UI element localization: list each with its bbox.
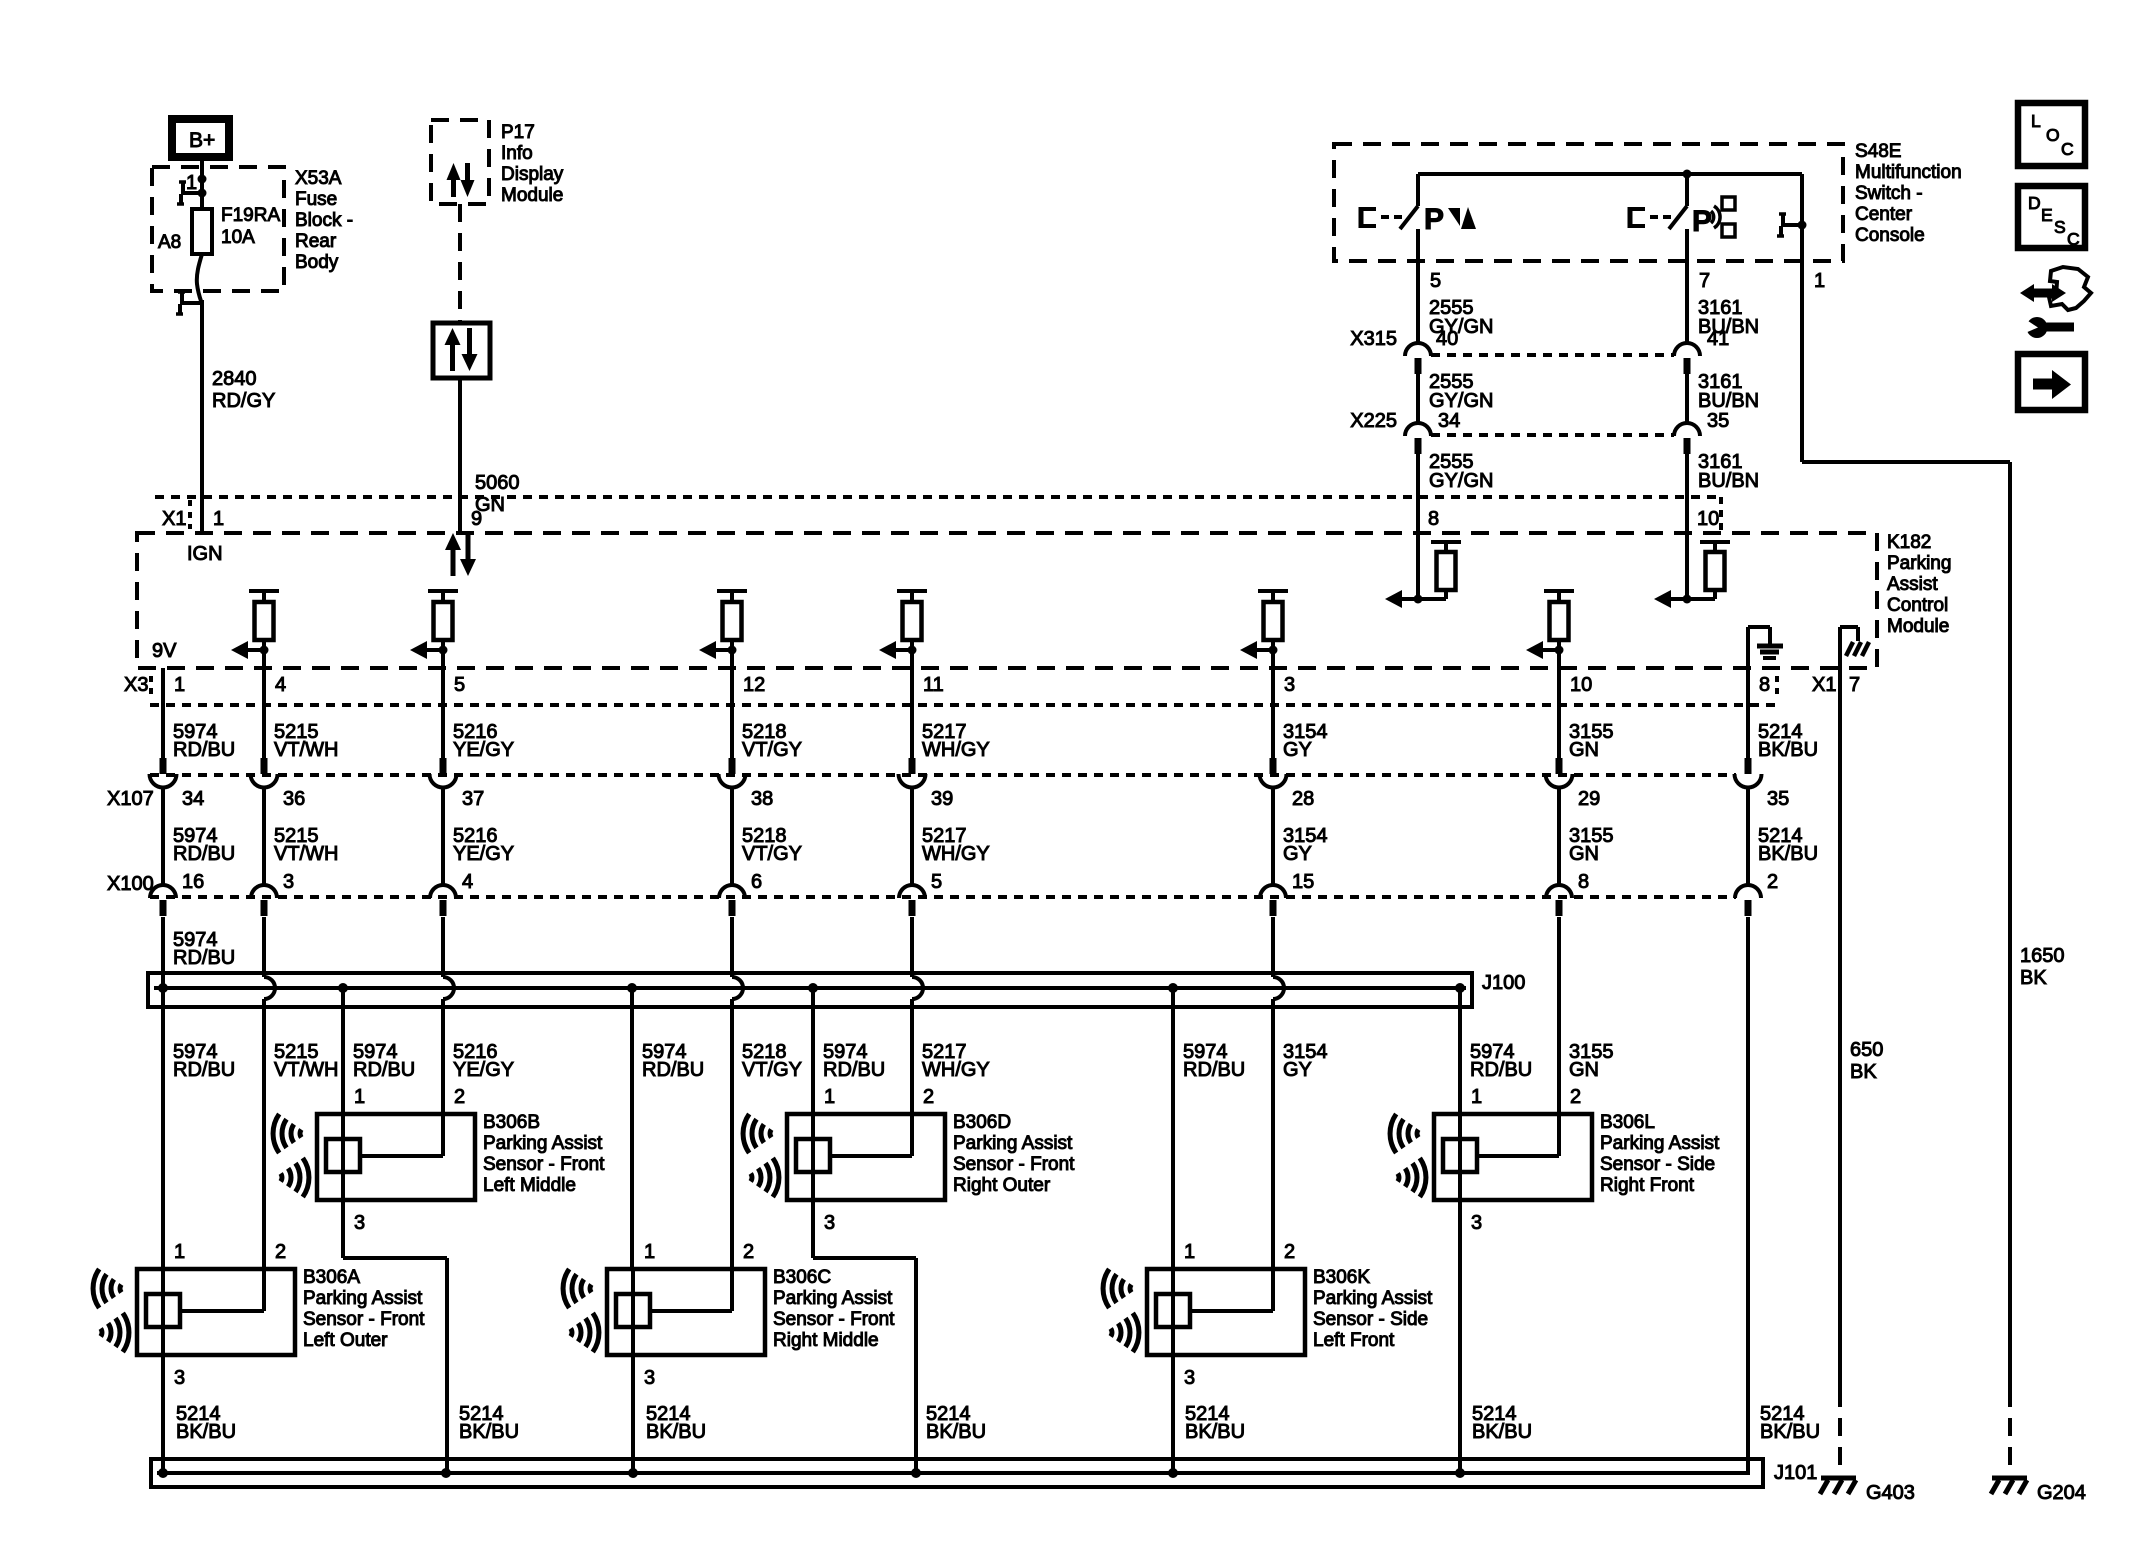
- svg-text:Parking Assist: Parking Assist: [773, 1288, 893, 1309]
- svg-text:Sensor - Front: Sensor - Front: [953, 1154, 1075, 1175]
- wire 5215 VT/WH X3 to X107: [264, 650, 338, 761]
- wire crossing J100 with hop: [912, 917, 923, 999]
- svg-text:3: 3: [174, 1367, 185, 1389]
- connector X107 terminal pin 37: [430, 758, 485, 810]
- connector X100 terminal pin 6: [719, 885, 745, 916]
- connector X3 row: [150, 676, 1777, 705]
- svg-text:GN: GN: [1569, 1059, 1599, 1081]
- svg-text:IGN: IGN: [187, 543, 223, 565]
- connector X100 terminal pin 5: [899, 885, 925, 916]
- connector X100 terminal pin 8: [1546, 885, 1572, 916]
- svg-text:G204: G204: [2037, 1482, 2086, 1504]
- svg-text:39: 39: [931, 788, 953, 810]
- svg-text:RD/GY: RD/GY: [212, 390, 275, 412]
- svg-text:BK/BU: BK/BU: [926, 1421, 986, 1443]
- switch contact 1 (pin 5): [1400, 174, 1418, 261]
- svg-text:Center: Center: [1855, 204, 1913, 225]
- wire crossing J100 with hop: [1273, 917, 1284, 999]
- pin 1 of X53A: [186, 172, 197, 194]
- icon next-page arrow box: [2018, 354, 2085, 410]
- X3 pin 12: [743, 674, 765, 696]
- wire 5216 YE/GY to sensor: [443, 999, 514, 1156]
- wire 5216 YE/GY X107 to X100: [443, 788, 514, 893]
- svg-text:1: 1: [1471, 1086, 1482, 1108]
- sonar waves icon B306D: [743, 1114, 779, 1197]
- wire 3161 BU/BN segment 2: [1687, 371, 1759, 423]
- wire 3155 GN X3 to X107: [1559, 650, 1614, 761]
- wire 5217 WH/GY to sensor: [912, 999, 990, 1156]
- svg-text:650: 650: [1850, 1039, 1883, 1061]
- svg-text:8: 8: [1578, 871, 1589, 893]
- svg-text:BK/BU: BK/BU: [1758, 739, 1818, 761]
- svg-text:Left Outer: Left Outer: [303, 1330, 388, 1351]
- parking assist sensor B306D: [787, 1086, 945, 1200]
- svg-text:J101: J101: [1774, 1462, 1817, 1484]
- svg-text:RD/BU: RD/BU: [173, 1059, 235, 1081]
- wire 5215 VT/WH X107 to X100: [264, 788, 338, 893]
- svg-text:RD/BU: RD/BU: [173, 843, 235, 865]
- wire 1650 BK label: [2020, 945, 2065, 989]
- label B306B: [483, 1112, 605, 1196]
- X3 pin 11: [923, 674, 944, 696]
- svg-text:10: 10: [1570, 674, 1592, 696]
- wire 5974 RD/BU to sensor: [813, 988, 885, 1114]
- svg-text:3: 3: [644, 1367, 655, 1389]
- svg-text:1: 1: [174, 674, 185, 696]
- svg-text:3: 3: [283, 871, 294, 893]
- connector X100 terminal pin 3: [251, 885, 277, 916]
- internal chassis ground (X1 pin 7): [1840, 627, 1869, 683]
- J101 junction dots: [158, 1468, 1465, 1478]
- wire 5214 BK/BU X3 to X107: [1748, 705, 1818, 761]
- wire 5215 VT/WH to sensor: [264, 999, 338, 1311]
- wire 2555 GY/GN segment 1: [1418, 261, 1493, 343]
- wire 5217 WH/GY X3 to X107: [912, 650, 990, 761]
- wire 1650 BK upper run from S48E pin 1: [1802, 261, 2010, 1389]
- svg-text:1: 1: [824, 1086, 835, 1108]
- svg-text:Control: Control: [1887, 595, 1948, 616]
- svg-text:5060: 5060: [475, 472, 520, 494]
- svg-text:35: 35: [1707, 410, 1729, 432]
- terminal hook below fuse block: [176, 292, 200, 314]
- connector X315 terminal for 2555: [1405, 343, 1431, 374]
- pin 3 wire of B306C: [633, 1355, 655, 1473]
- svg-text:B306L: B306L: [1600, 1112, 1655, 1133]
- J100 junction dots: [158, 983, 1465, 993]
- wire 5974 RD/BU X3 to X107: [163, 668, 235, 761]
- svg-text:BK/BU: BK/BU: [1760, 1421, 1820, 1443]
- wire 2555 GY/GN segment 3: [1418, 451, 1493, 533]
- label B306C: [773, 1267, 895, 1351]
- svg-text:P: P: [1692, 205, 1712, 238]
- svg-text:VT/GY: VT/GY: [742, 843, 802, 865]
- svg-text:10A: 10A: [221, 227, 255, 248]
- battery B+ terminal: [172, 119, 229, 157]
- svg-text:Console: Console: [1855, 225, 1925, 246]
- svg-text:X107: X107: [107, 788, 154, 810]
- K182 label: [1887, 532, 1951, 637]
- svg-text:16: 16: [182, 871, 204, 893]
- sonar waves icon B306K: [1103, 1269, 1139, 1352]
- svg-text:P: P: [1424, 203, 1444, 236]
- connector X100 row: [107, 873, 1736, 897]
- connector X100 terminal pin 4: [430, 885, 456, 916]
- svg-text:GN: GN: [1569, 843, 1599, 865]
- internal signal ground (X3 pin 8): [1748, 627, 1783, 705]
- wire 5214 BK/BU X107 to X100: [1748, 788, 1818, 893]
- svg-text:WH/GY: WH/GY: [922, 843, 990, 865]
- svg-text:BK/BU: BK/BU: [176, 1421, 236, 1443]
- svg-text:X1: X1: [162, 508, 186, 530]
- svg-text:Sensor - Front: Sensor - Front: [773, 1309, 895, 1330]
- svg-text:GY: GY: [1283, 843, 1312, 865]
- internal serial data arrows below pin 9: [445, 533, 476, 576]
- node 9V: [152, 640, 177, 662]
- svg-text:GY: GY: [1283, 1059, 1312, 1081]
- svg-text:2: 2: [1767, 871, 1778, 893]
- svg-text:VT/GY: VT/GY: [742, 1059, 802, 1081]
- connector X225 terminal for 3161: [1674, 423, 1700, 454]
- pin 3 wire of B306D: [813, 1200, 916, 1473]
- X3 pin 8: [1759, 674, 1770, 696]
- wire 5214 BK/BU X100 down to J101: [1746, 917, 1750, 1473]
- wire 5218 VT/GY X107 to X100: [732, 788, 802, 893]
- svg-text:B306A: B306A: [303, 1267, 360, 1288]
- module K182 Parking Assist Control Module dashed box: [137, 533, 1877, 668]
- wire crossing J100 with hop: [443, 917, 454, 999]
- svg-text:1: 1: [1814, 270, 1825, 292]
- svg-text:38: 38: [751, 788, 773, 810]
- connector X107 terminal pin 38: [719, 758, 774, 810]
- svg-text:41: 41: [1707, 328, 1729, 350]
- svg-text:Parking Assist: Parking Assist: [303, 1288, 423, 1309]
- icon P warning (park assist off): [1424, 203, 1476, 236]
- svg-text:VT/WH: VT/WH: [274, 843, 338, 865]
- connector X107 terminal pin 36: [251, 758, 306, 810]
- label B306D: [953, 1112, 1075, 1196]
- pin 3 wire of B306K: [1173, 1355, 1195, 1473]
- parking assist sensor B306B: [317, 1086, 475, 1200]
- svg-text:GN: GN: [1569, 739, 1599, 761]
- wire 5217 WH/GY X107 to X100: [912, 788, 990, 893]
- pin 3 wire of B306A: [163, 1355, 185, 1473]
- switch S48E dashed box: [1334, 144, 1843, 261]
- svg-text:X315: X315: [1350, 328, 1397, 350]
- svg-text:28: 28: [1292, 788, 1314, 810]
- X3 pin 3: [1284, 674, 1295, 696]
- wire below fuse with terminal: [197, 254, 202, 304]
- input resistor/arrow for pin 10: [1654, 533, 1730, 608]
- dashed drop to G204: [2008, 1389, 2012, 1476]
- svg-text:Right Front: Right Front: [1600, 1175, 1695, 1196]
- S48E pin numbers 5 7 1: [1430, 270, 1825, 292]
- svg-text:BK/BU: BK/BU: [459, 1421, 519, 1443]
- svg-text:1: 1: [213, 508, 224, 530]
- svg-text:B+: B+: [189, 129, 215, 152]
- wire 5974 RD/BU X100 to J100: [163, 917, 235, 988]
- wire 5974 RD/BU to sensor: [1173, 988, 1245, 1269]
- svg-text:S48E: S48E: [1855, 141, 1901, 162]
- connector X315 terminal for 3161: [1674, 343, 1700, 374]
- wire 650 BK from X1 pin 7: [1840, 683, 1883, 1389]
- svg-text:5: 5: [931, 871, 942, 893]
- X3 pin 10: [1570, 674, 1592, 696]
- pin 3 wire of B306L: [1460, 1200, 1482, 1473]
- icon DESC box: [2018, 186, 2085, 249]
- svg-text:9V: 9V: [152, 640, 177, 662]
- switch contact 2 (pin 7): [1669, 174, 1687, 261]
- internal resistor/driver for X3 pin 10: [1526, 591, 1574, 659]
- svg-text:29: 29: [1578, 788, 1600, 810]
- connector X107 terminal pin 35: [1735, 758, 1790, 810]
- svg-text:YE/GY: YE/GY: [453, 1059, 514, 1081]
- svg-text:X1: X1: [1812, 674, 1836, 696]
- svg-text:4: 4: [275, 674, 286, 696]
- svg-text:Left Front: Left Front: [1313, 1330, 1395, 1351]
- svg-text:X3: X3: [124, 674, 148, 696]
- X3 pin 4: [275, 674, 286, 696]
- connector X225 row: [1350, 410, 1729, 435]
- svg-text:Rear: Rear: [295, 231, 337, 252]
- splice pack J100: [148, 972, 1525, 1007]
- svg-text:B306B: B306B: [483, 1112, 540, 1133]
- svg-text:10: 10: [1697, 508, 1719, 530]
- svg-text:34: 34: [182, 788, 204, 810]
- X3 / X1 labels on row: [124, 674, 1860, 696]
- svg-text:7: 7: [1699, 270, 1710, 292]
- svg-text:O: O: [2046, 125, 2060, 145]
- internal resistor/driver for X3 pin 3: [1240, 591, 1288, 659]
- svg-text:4: 4: [462, 871, 473, 893]
- svg-text:Fuse: Fuse: [295, 189, 337, 210]
- svg-text:3: 3: [354, 1212, 365, 1234]
- connector X1 row (module harness): [155, 497, 1721, 533]
- S48E label: [1855, 141, 1962, 246]
- wire 5974 RD/BU X107 to X100: [163, 788, 235, 893]
- svg-text:Sensor - Side: Sensor - Side: [1600, 1154, 1715, 1175]
- parking assist sensor B306C: [607, 1241, 765, 1355]
- svg-text:D: D: [2028, 193, 2041, 213]
- svg-text:Left Middle: Left Middle: [483, 1175, 576, 1196]
- svg-text:RD/BU: RD/BU: [173, 947, 235, 969]
- X3 pin 5: [454, 674, 465, 696]
- svg-text:2: 2: [1570, 1086, 1581, 1108]
- svg-text:X100: X100: [107, 873, 154, 895]
- svg-text:1: 1: [354, 1086, 365, 1108]
- splice pack J101: [151, 1459, 1817, 1487]
- X3 pin 1: [174, 674, 185, 696]
- svg-text:3: 3: [1471, 1212, 1482, 1234]
- svg-text:3: 3: [1284, 674, 1295, 696]
- wire 2555 GY/GN segment 2: [1418, 371, 1493, 423]
- svg-text:Display: Display: [501, 164, 564, 185]
- module P17 Info Display dashed box: [431, 120, 489, 204]
- svg-text:YE/GY: YE/GY: [453, 843, 514, 865]
- svg-text:37: 37: [462, 788, 484, 810]
- svg-text:VT/WH: VT/WH: [274, 1059, 338, 1081]
- parking assist sensor B306L: [1434, 1086, 1592, 1200]
- svg-text:BK/BU: BK/BU: [1185, 1421, 1245, 1443]
- svg-text:2: 2: [923, 1086, 934, 1108]
- svg-text:RD/BU: RD/BU: [353, 1059, 415, 1081]
- svg-text:F19RA: F19RA: [221, 205, 280, 226]
- input resistor/arrow for pin 8: [1385, 533, 1461, 608]
- icon wrench and part outline: [2020, 267, 2091, 338]
- connector X107 terminal pin 39: [899, 758, 954, 810]
- svg-text:BK: BK: [2020, 967, 2047, 989]
- svg-text:34: 34: [1438, 410, 1460, 432]
- svg-text:BK/BU: BK/BU: [1758, 843, 1818, 865]
- svg-text:Sensor - Side: Sensor - Side: [1313, 1309, 1428, 1330]
- svg-text:Parking Assist: Parking Assist: [1313, 1288, 1433, 1309]
- svg-text:X225: X225: [1350, 410, 1397, 432]
- svg-text:36: 36: [283, 788, 305, 810]
- connector X315 row: [1350, 328, 1729, 355]
- wire 5214 BK/BU labels above J101: [176, 1403, 1820, 1443]
- svg-text:1: 1: [1184, 1241, 1195, 1263]
- internal resistor/driver for X3 pin 4: [231, 591, 279, 659]
- internal resistor/driver for X3 pin 12: [699, 591, 747, 659]
- svg-text:BK: BK: [1850, 1061, 1877, 1083]
- wire 5218 VT/GY X3 to X107: [732, 650, 802, 761]
- connector X107 terminal pin 28: [1260, 758, 1315, 810]
- svg-text:BK/BU: BK/BU: [1472, 1421, 1532, 1443]
- svg-text:C: C: [2067, 229, 2080, 249]
- svg-text:C: C: [2061, 139, 2074, 159]
- svg-text:WH/GY: WH/GY: [922, 739, 990, 761]
- svg-text:2: 2: [454, 1086, 465, 1108]
- sonar waves icon B306B: [273, 1114, 309, 1197]
- svg-text:12: 12: [743, 674, 765, 696]
- svg-text:RD/BU: RD/BU: [173, 739, 235, 761]
- svg-text:Sensor - Front: Sensor - Front: [483, 1154, 605, 1175]
- svg-text:GY/GN: GY/GN: [1429, 470, 1493, 492]
- wire crossing J100 with hop: [264, 917, 275, 999]
- svg-text:35: 35: [1767, 788, 1789, 810]
- ground G204: [1991, 1478, 2086, 1504]
- pin 3 wire of B306B: [343, 1200, 447, 1473]
- icon P sonar (park assist on): [1692, 197, 1735, 238]
- svg-text:BU/BN: BU/BN: [1698, 470, 1759, 492]
- wire 5974 RD/BU to sensor: [343, 988, 415, 1114]
- svg-text:BK/BU: BK/BU: [646, 1421, 706, 1443]
- terminal hook pin 1: [1777, 214, 1801, 236]
- svg-text:1650: 1650: [2020, 945, 2065, 967]
- svg-text:P17: P17: [501, 122, 535, 143]
- svg-text:Right Outer: Right Outer: [953, 1175, 1051, 1196]
- svg-text:A8: A8: [158, 232, 181, 253]
- pin A8 of X53A: [158, 232, 181, 253]
- P17 data arrows icon: [447, 163, 475, 197]
- parking assist sensor B306K: [1147, 1241, 1305, 1355]
- wire 3155 GN X100 down to B306L pin 2: [1557, 917, 1561, 1114]
- label B306L: [1600, 1112, 1720, 1196]
- svg-text:2: 2: [743, 1241, 754, 1263]
- connector X107 terminal pin 34: [150, 758, 205, 810]
- svg-text:G403: G403: [1866, 1482, 1915, 1504]
- wire 5974 RD/BU to sensor: [632, 988, 704, 1269]
- sonar waves icon B306C: [563, 1269, 599, 1352]
- wire 3161 BU/BN segment 1: [1687, 261, 1759, 343]
- svg-text:GY/GN: GY/GN: [1429, 390, 1493, 412]
- svg-text:1: 1: [186, 172, 197, 194]
- svg-text:L: L: [2031, 111, 2041, 131]
- sonar waves icon B306L: [1390, 1114, 1426, 1197]
- wire 3154 GY to sensor: [1273, 999, 1328, 1311]
- wire 5216 YE/GY X3 to X107: [443, 650, 514, 761]
- serial data interface box: [433, 323, 490, 378]
- svg-text:Info: Info: [501, 143, 533, 164]
- ground G403: [1820, 1478, 1915, 1504]
- icon LOC box: [2018, 103, 2085, 166]
- svg-text:3: 3: [824, 1212, 835, 1234]
- internal wire S48E: [1418, 170, 1807, 262]
- wire 5974 RD/BU to sensor: [163, 988, 235, 1269]
- wire 5060 GN: [460, 378, 520, 533]
- connector X100 terminal pin 2: [1735, 885, 1761, 916]
- wire 3154 GY X107 to X100: [1273, 788, 1328, 893]
- label B306K: [1313, 1267, 1433, 1351]
- svg-text:Module: Module: [501, 185, 563, 206]
- svg-text:Parking Assist: Parking Assist: [953, 1133, 1073, 1154]
- fuse block label X53A Fuse Block - Rear Body: [295, 168, 353, 273]
- svg-text:VT/WH: VT/WH: [274, 739, 338, 761]
- svg-text:Parking Assist: Parking Assist: [483, 1133, 603, 1154]
- wire 3161 BU/BN segment 3: [1687, 451, 1759, 533]
- connector X107 terminal pin 29: [1546, 758, 1601, 810]
- wire 5218 VT/GY to sensor: [732, 999, 802, 1311]
- dashed drop to G403: [1838, 1389, 1842, 1476]
- internal resistor/driver for X3 pin 5: [410, 591, 458, 659]
- svg-text:8: 8: [1428, 508, 1439, 530]
- svg-text:2: 2: [275, 1241, 286, 1263]
- svg-text:J100: J100: [1482, 972, 1525, 994]
- wire 2840 RD/GY: [202, 300, 275, 533]
- svg-text:6: 6: [751, 871, 762, 893]
- svg-text:BU/BN: BU/BN: [1698, 390, 1759, 412]
- terminal hook at fuse top: [177, 182, 201, 204]
- svg-text:5: 5: [454, 674, 465, 696]
- svg-text:Sensor - Front: Sensor - Front: [303, 1309, 425, 1330]
- node IGN: [187, 543, 223, 565]
- dashed wire P17 to serial interface: [458, 204, 462, 323]
- svg-text:Block -: Block -: [295, 210, 353, 231]
- svg-text:S: S: [2054, 217, 2066, 237]
- svg-text:B306C: B306C: [773, 1267, 831, 1288]
- svg-text:11: 11: [923, 674, 944, 696]
- sonar waves icon B306A: [93, 1269, 129, 1352]
- svg-text:Parking Assist: Parking Assist: [1600, 1133, 1720, 1154]
- svg-text:B306D: B306D: [953, 1112, 1011, 1133]
- wire 5974 RD/BU to sensor: [1460, 988, 1532, 1114]
- svg-text:E: E: [2041, 205, 2053, 225]
- connector X107 row: [107, 775, 1736, 810]
- svg-text:X53A: X53A: [295, 168, 342, 189]
- svg-text:Body: Body: [295, 252, 339, 273]
- fuse block X53A dashed box: [152, 167, 284, 291]
- mechanical link 2: [1630, 207, 1671, 228]
- wire 3155 GN label to sensor: [1569, 1041, 1614, 1081]
- connector X100 terminal pin 16: [150, 885, 176, 916]
- svg-text:3: 3: [1184, 1367, 1195, 1389]
- svg-text:1: 1: [174, 1241, 185, 1263]
- P17 label: [501, 122, 564, 206]
- wire crossing J100 with hop: [732, 917, 743, 999]
- parking assist sensor B306A: [137, 1241, 295, 1355]
- svg-text:Assist: Assist: [1887, 574, 1938, 595]
- svg-text:RD/BU: RD/BU: [823, 1059, 885, 1081]
- svg-text:YE/GY: YE/GY: [453, 739, 514, 761]
